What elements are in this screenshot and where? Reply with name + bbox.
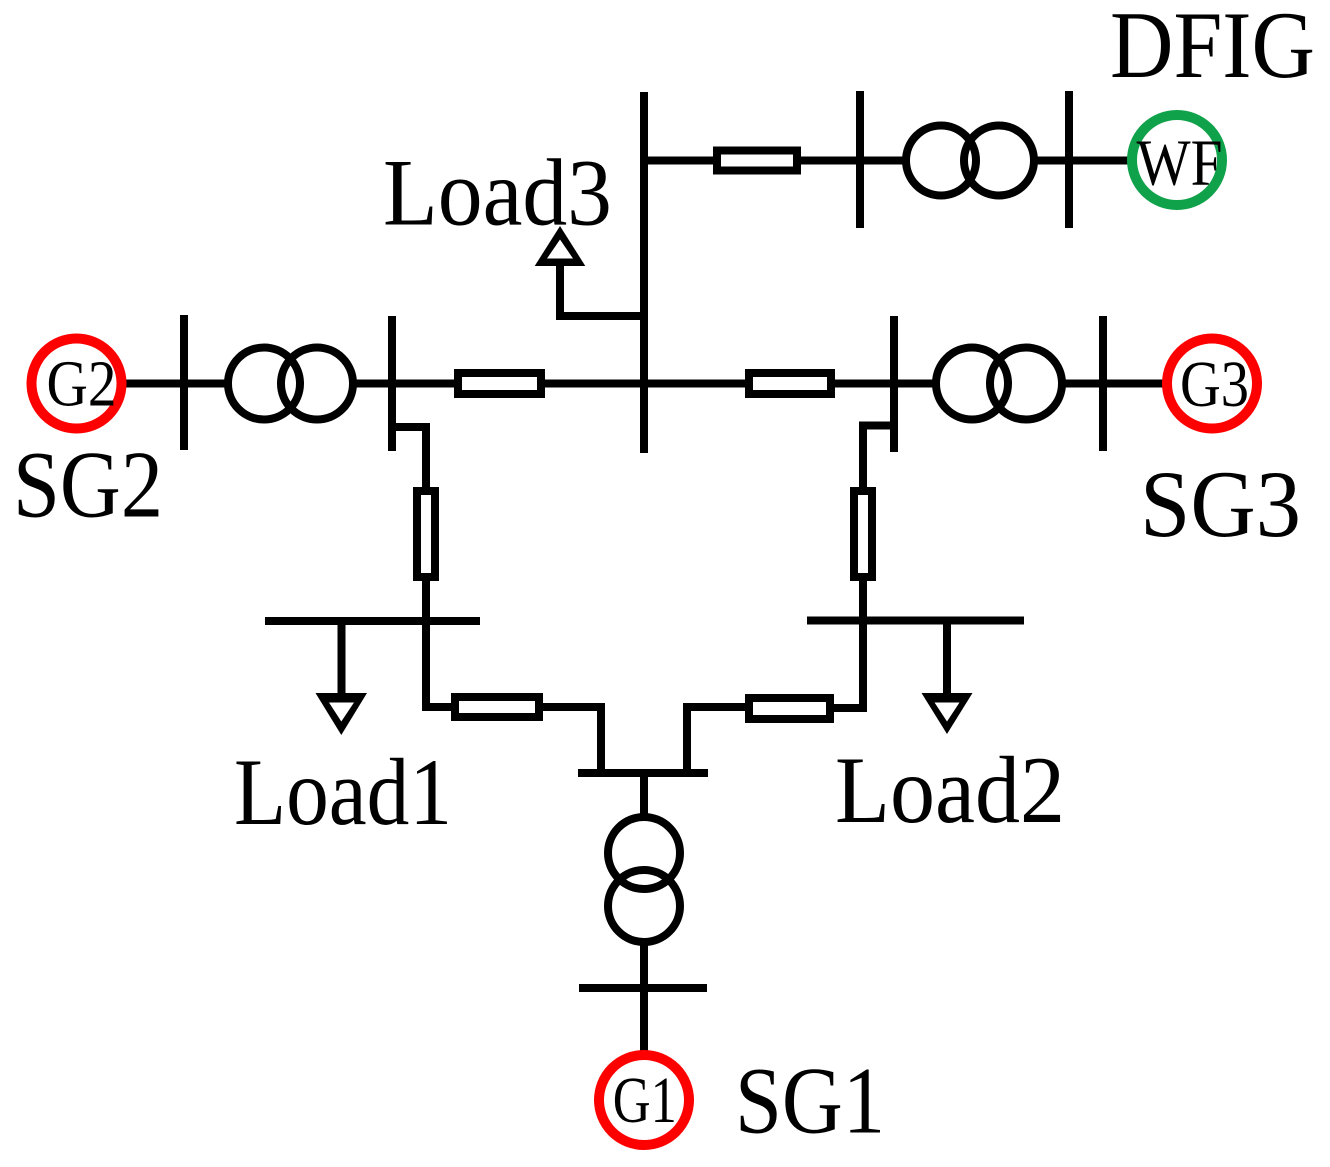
wire: Load1 stem [338,621,346,699]
svg-text:SG2: SG2 [13,432,163,538]
node: bus left of transformer T2 [180,315,188,450]
transformer T2 (two overlapping circles, left) [228,348,353,420]
load Load3 arrow (open triangle pointing up) [535,226,586,266]
svg-text:G2: G2 [47,348,117,421]
line Line-23a: transmission line left of center bus [458,373,541,394]
load Load2 arrow (open triangle pointing down) [922,693,973,734]
line Line-23b: transmission line right of center bus [749,373,831,394]
node: SG1 upper bus [578,769,708,777]
transformer T1 (two overlapping circles, vertical, SG1) [608,817,680,942]
svg-text:G1: G1 [613,1064,677,1137]
node: bus right of transformer T2 [388,316,396,451]
node: Load1 bus [265,617,480,625]
svg-text:Load1: Load1 [234,739,452,845]
node: center bus (vertical) [640,92,648,453]
wire: bottom-right connector to SG1 bus [687,707,745,773]
line Line-L1: vertical transmission line left [417,491,435,577]
node: SG1 lower bus [579,984,707,992]
svg-text:Load2: Load2 [835,737,1065,843]
line Line-B1a: bottom-left transmission line [455,697,539,717]
line Line-B1b: bottom-right transmission line [749,698,830,719]
generator G2 (red circle) [32,339,122,429]
node: bus right of transformer T3 [1099,316,1107,451]
transformer T3 (two overlapping circles, right) [936,348,1062,420]
wire: SG1 vertical branch [640,773,648,1054]
generator G1 (red circle) [599,1055,689,1145]
node: bus left of transformer T3 [890,316,898,452]
svg-text:WF: WF [1137,127,1223,200]
node: Load2 bus [807,617,1024,625]
wire: Load2 stem [943,621,951,700]
node: bus right on DFIG feeder [1065,91,1073,228]
node: bus left on DFIG feeder [856,91,864,228]
line Line-L2: vertical transmission line right [854,491,872,577]
wire: Load3 feed from center bus [560,261,644,316]
svg-text:Load3: Load3 [383,140,612,246]
svg-text:DFIG: DFIG [1110,0,1315,98]
wire: bottom-left connector to SG1 bus [543,707,601,773]
generator G3 (red circle) [1167,339,1257,429]
svg-text:G3: G3 [1180,348,1249,421]
wire: DFIG feeder line [644,157,1131,165]
wire: main 230kV tie line G2-G3 [125,380,1163,388]
svg-text:SG3: SG3 [1140,451,1301,557]
wire: step from right bus down to right vertical line [834,426,894,709]
line Line-3W: transmission line on DFIG feeder [717,151,797,171]
wire: step from left bus down to left vertical line [392,427,451,707]
transformer TW (two overlapping circles, DFIG feeder) [906,126,1034,196]
load Load1 arrow (open triangle pointing down) [316,693,368,735]
svg-text:SG1: SG1 [735,1048,885,1154]
generator WF (green circle, wind farm) [1132,115,1222,205]
